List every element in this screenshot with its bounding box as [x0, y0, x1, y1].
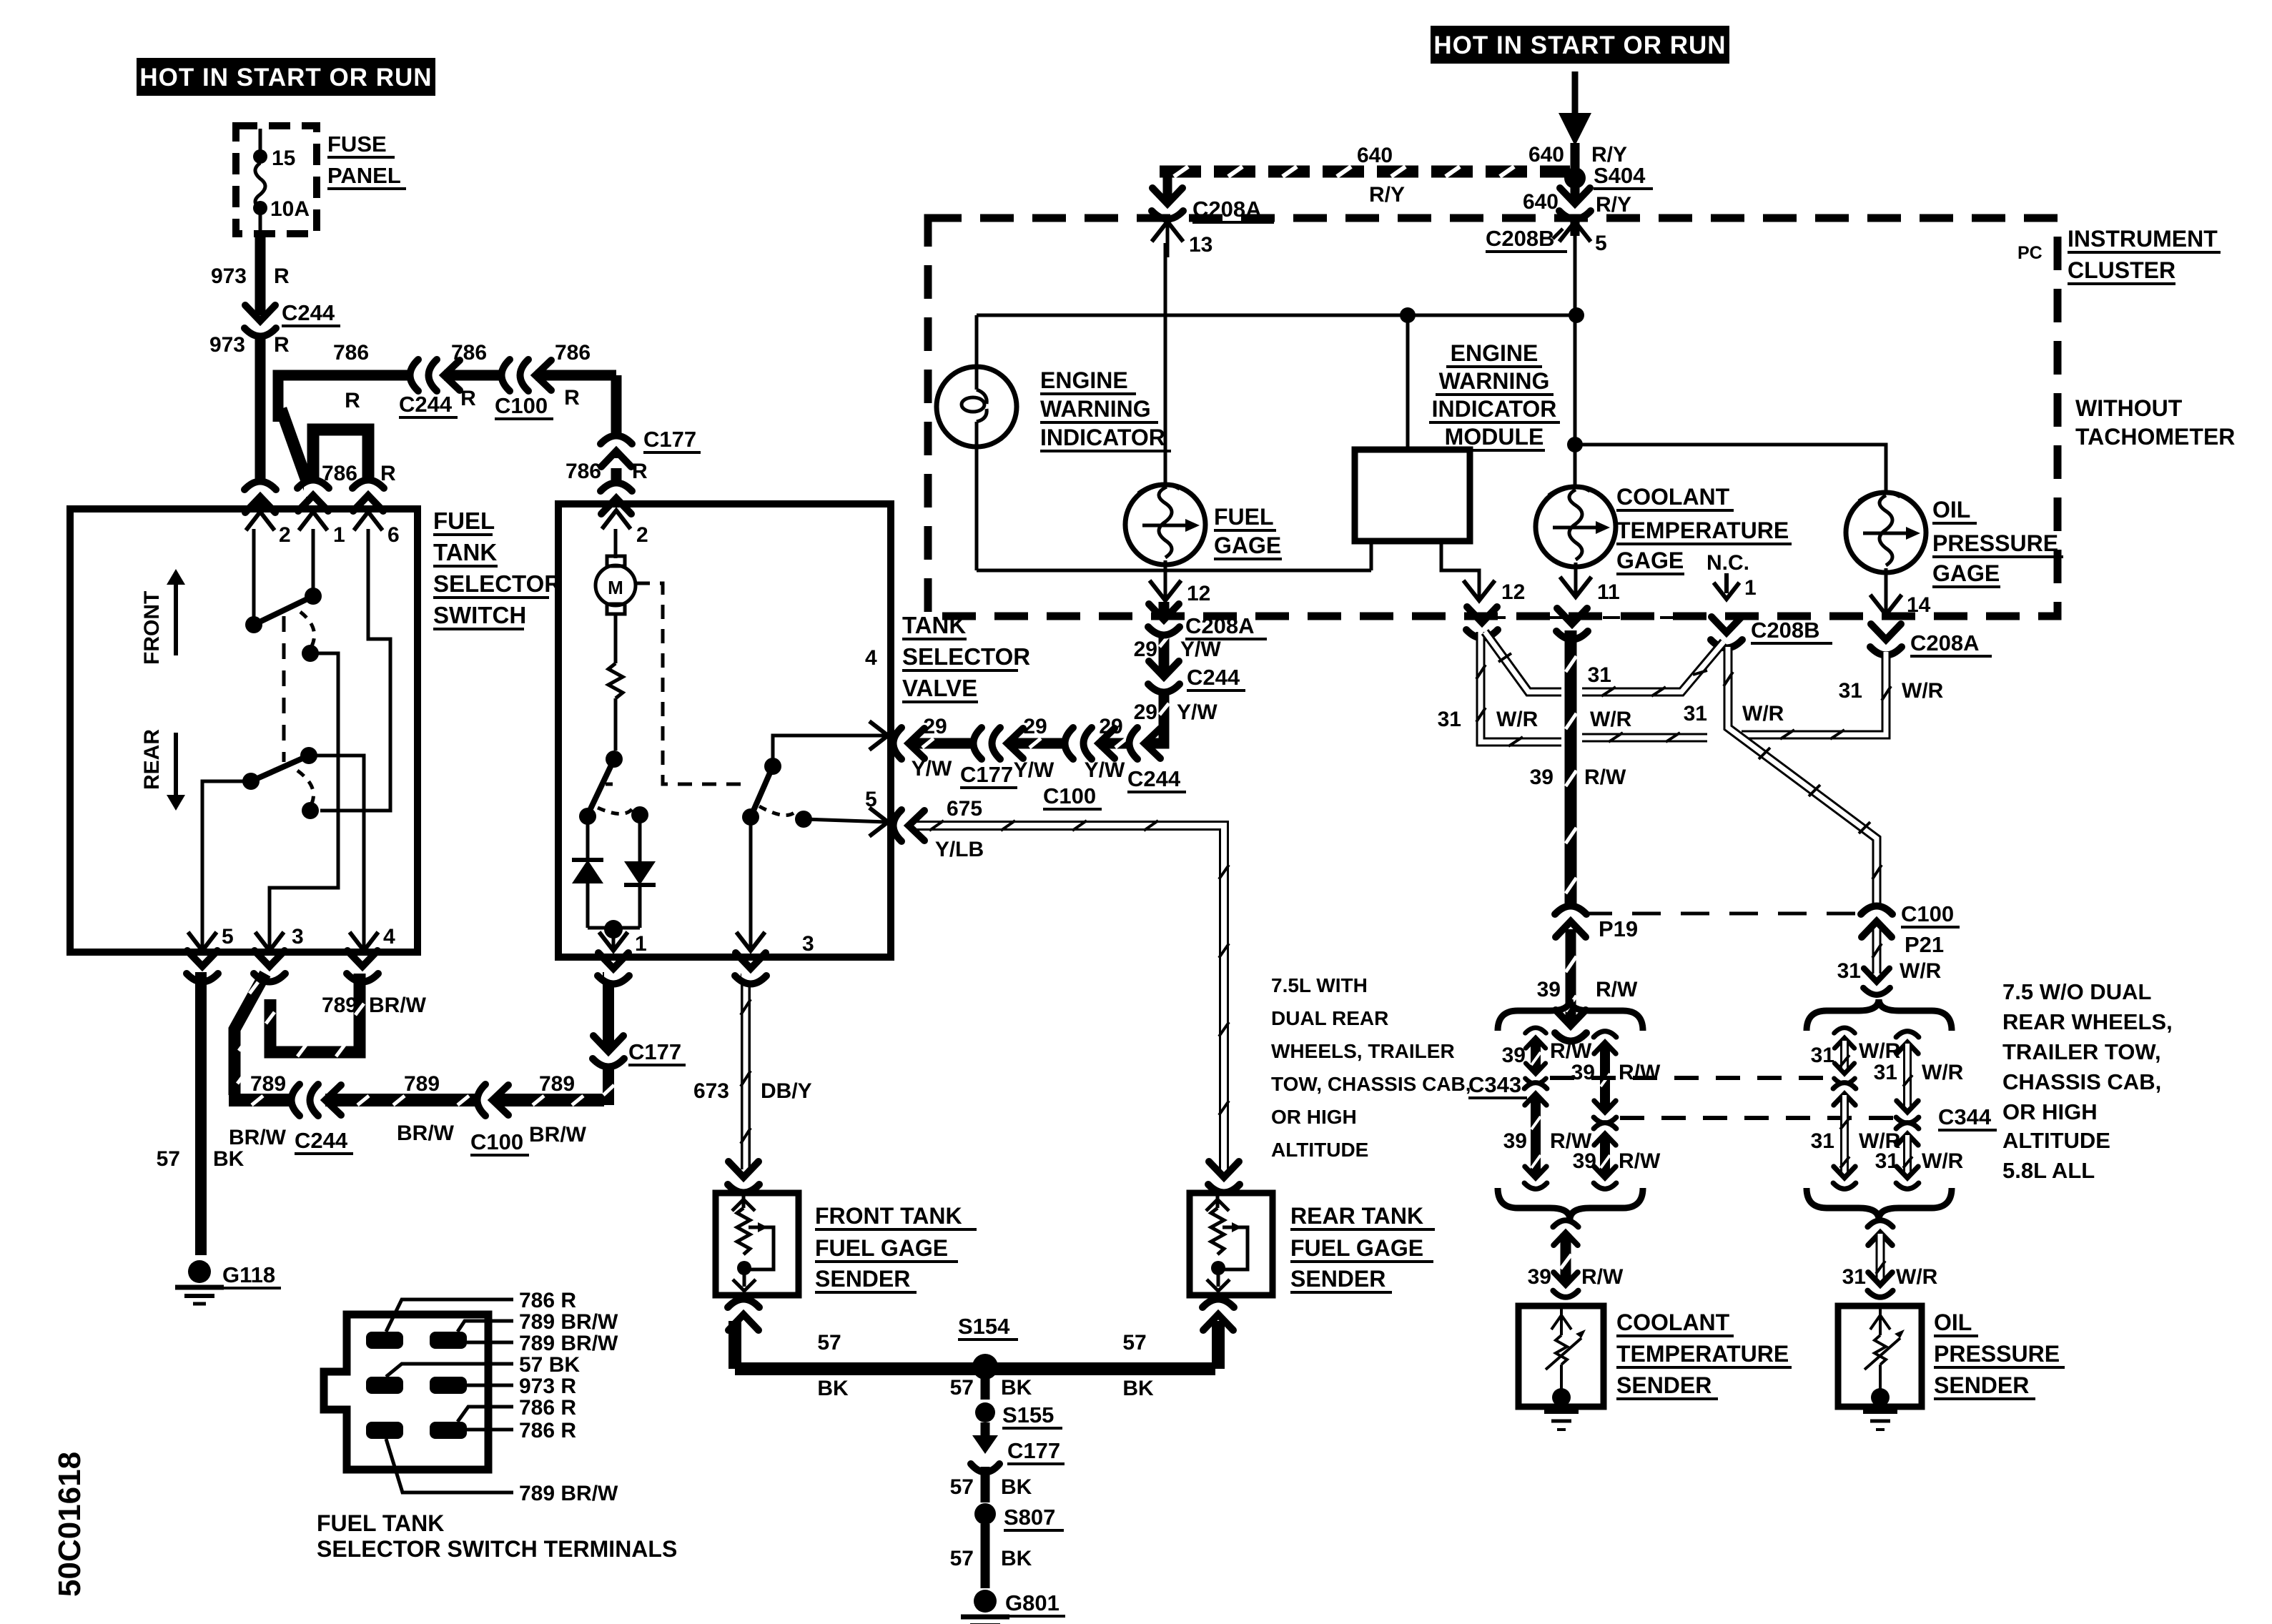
- wire 57 BK C177 to S807: [950, 1467, 1032, 1502]
- svg-text:973: 973: [211, 264, 247, 288]
- ground G118: [175, 1260, 281, 1304]
- svg-text:VALVE: VALVE: [902, 675, 977, 701]
- wire 789 BR/W riser to valve pin 1: [603, 972, 614, 1105]
- svg-text:31: 31: [1874, 1061, 1897, 1084]
- svg-text:INDICATOR: INDICATOR: [1432, 396, 1557, 422]
- note 7.5L with dual rear wheels: [1271, 974, 1471, 1161]
- svg-text:GAGE: GAGE: [1932, 560, 2000, 586]
- svg-text:57: 57: [950, 1475, 974, 1499]
- wire 39 R/W coolant pin11 main drop: [1530, 630, 1626, 904]
- wire 57 BK sender rail: [735, 1321, 1218, 1400]
- cluster pin 5 arrow: [1559, 222, 1607, 257]
- svg-text:BK: BK: [1001, 1475, 1032, 1499]
- svg-text:31: 31: [1837, 959, 1861, 983]
- svg-text:PRESSURE: PRESSURE: [1934, 1341, 2060, 1367]
- svg-text:FUEL: FUEL: [1214, 504, 1274, 530]
- svg-text:DB/Y: DB/Y: [761, 1079, 812, 1103]
- svg-text:31: 31: [1811, 1129, 1834, 1153]
- svg-text:BK: BK: [1001, 1547, 1032, 1570]
- svg-text:WARNING: WARNING: [1439, 368, 1550, 394]
- svg-text:TEMPERATURE: TEMPERATURE: [1616, 1341, 1789, 1367]
- wire 31 W/R lower (left leg): [1811, 1082, 1901, 1189]
- valve node to pin 1: [588, 920, 647, 956]
- svg-text:ALTITUDE: ALTITUDE: [2002, 1128, 2110, 1153]
- switch upper pole wiring: [245, 529, 338, 948]
- splice S404: [1523, 163, 1653, 217]
- svg-text:OR HIGH: OR HIGH: [2002, 1099, 2098, 1124]
- terminal leader lines: [386, 1299, 513, 1492]
- svg-text:SWITCH: SWITCH: [433, 602, 526, 628]
- svg-text:R: R: [274, 264, 290, 288]
- svg-text:Y/W: Y/W: [1177, 700, 1218, 724]
- svg-text:789 BR/W: 789 BR/W: [519, 1332, 618, 1355]
- dashed C100 boundary line: [1584, 912, 1864, 916]
- svg-text:W/R: W/R: [1859, 1039, 1901, 1063]
- engine warning indicator bulb: [937, 315, 1017, 570]
- svg-text:TACHOMETER: TACHOMETER: [2075, 424, 2235, 450]
- switch coupling dashed link: [282, 616, 286, 762]
- wire 31 W/R module pin12 loop (left): [1476, 632, 1561, 746]
- svg-text:57: 57: [950, 1547, 974, 1570]
- svg-text:P21: P21: [1905, 932, 1944, 957]
- svg-text:31: 31: [1438, 708, 1461, 731]
- svg-text:C208B: C208B: [1751, 618, 1820, 643]
- svg-text:675: 675: [947, 797, 982, 821]
- connector C177 (57 BK wire): [971, 1422, 1065, 1472]
- svg-text:W/R: W/R: [1896, 1265, 1938, 1289]
- terminal pins: [366, 1332, 467, 1439]
- svg-text:R/W: R/W: [1550, 1039, 1592, 1063]
- svg-text:W/R: W/R: [1900, 959, 1942, 983]
- wire 39 R/W to coolant sender: [1528, 1220, 1624, 1297]
- svg-text:R: R: [632, 460, 648, 483]
- svg-text:DUAL REAR: DUAL REAR: [1271, 1007, 1388, 1029]
- valve right pole contacts: [736, 736, 887, 956]
- svg-text:C100: C100: [1043, 783, 1096, 808]
- svg-text:TEMPERATURE: TEMPERATURE: [1616, 518, 1789, 543]
- connector chevron (coolant pin 11): [1556, 608, 1588, 640]
- switch pin 1 entry: [297, 480, 345, 547]
- svg-text:OIL: OIL: [1932, 497, 1970, 523]
- dashed jumper line upper: [1550, 1076, 1830, 1080]
- svg-text:BR/W: BR/W: [229, 1126, 287, 1149]
- svg-text:COOLANT: COOLANT: [1616, 1309, 1730, 1335]
- svg-text:C244: C244: [399, 392, 453, 417]
- svg-text:31: 31: [1875, 1149, 1899, 1173]
- wire 640 R/Y vertical at S404: [1528, 71, 1627, 236]
- svg-text:57: 57: [1122, 1331, 1146, 1355]
- svg-text:973 R: 973 R: [519, 1375, 576, 1398]
- cluster pin 12 arrow (module): [1463, 580, 1525, 604]
- svg-text:W/R: W/R: [1922, 1061, 1964, 1084]
- svg-text:PC: PC: [2017, 243, 2043, 263]
- svg-text:FUEL GAGE: FUEL GAGE: [815, 1235, 948, 1261]
- svg-text:786: 786: [555, 341, 591, 365]
- connector C177 (789 wire): [593, 1036, 686, 1067]
- svg-text:W/R: W/R: [1922, 1149, 1964, 1173]
- svg-text:7.5 W/O DUAL: 7.5 W/O DUAL: [2002, 979, 2151, 1004]
- svg-text:R: R: [274, 333, 290, 357]
- svg-text:TRAILER TOW,: TRAILER TOW,: [2002, 1039, 2161, 1064]
- FRONT arrow: [140, 569, 185, 665]
- wire 57 BK S154 to S155: [950, 1376, 1032, 1400]
- svg-text:COOLANT: COOLANT: [1616, 484, 1730, 510]
- svg-text:786 R: 786 R: [519, 1396, 576, 1420]
- wire 640 R/Y horizontal run: [1160, 144, 1570, 207]
- svg-text:S404: S404: [1594, 163, 1646, 188]
- svg-text:N.C.: N.C.: [1707, 551, 1749, 575]
- svg-text:C344: C344: [1938, 1104, 1992, 1129]
- brace upper (39 group): [1498, 999, 1643, 1031]
- svg-text:GAGE: GAGE: [1214, 533, 1281, 558]
- svg-text:5.8L ALL: 5.8L ALL: [2002, 1158, 2095, 1183]
- svg-text:786 R: 786 R: [519, 1419, 576, 1442]
- splice S154: [958, 1314, 1018, 1380]
- svg-text:INDICATOR: INDICATOR: [1040, 425, 1165, 450]
- svg-text:786: 786: [565, 460, 601, 483]
- valve diode D1: [572, 816, 603, 928]
- svg-text:39: 39: [1503, 1129, 1527, 1153]
- svg-text:REAR: REAR: [140, 729, 164, 790]
- note 7.5 w/o dual rear wheels: [2002, 979, 2173, 1183]
- svg-text:13: 13: [1189, 233, 1212, 257]
- brace lower (39 group): [1498, 1188, 1643, 1219]
- svg-text:C208A: C208A: [1910, 630, 1980, 655]
- svg-text:29: 29: [1134, 638, 1157, 661]
- svg-text:R/W: R/W: [1584, 766, 1626, 789]
- svg-text:39: 39: [1571, 1061, 1595, 1084]
- svg-text:C244: C244: [1187, 665, 1240, 690]
- svg-text:WITHOUT: WITHOUT: [2075, 395, 2183, 421]
- valve left pole contacts: [579, 751, 648, 825]
- wire 39 R/W lower (left leg): [1503, 1082, 1592, 1189]
- wire 973 R C244 to switch pin 2: [255, 335, 266, 506]
- svg-text:FRONT: FRONT: [140, 591, 164, 665]
- svg-text:2: 2: [636, 523, 648, 547]
- valve pin 4 arrow: [865, 646, 888, 750]
- svg-text:57: 57: [950, 1376, 974, 1400]
- svg-text:CHASSIS CAB,: CHASSIS CAB,: [2002, 1069, 2161, 1094]
- svg-text:673: 673: [693, 1079, 729, 1103]
- svg-text:FUEL TANK: FUEL TANK: [317, 1510, 444, 1536]
- svg-text:P19: P19: [1599, 916, 1638, 941]
- svg-text:OIL: OIL: [1934, 1309, 1972, 1335]
- svg-text:640: 640: [1528, 143, 1564, 167]
- svg-text:C208B: C208B: [1486, 226, 1555, 251]
- fuel gage: [1125, 243, 1205, 597]
- svg-text:39: 39: [1530, 766, 1554, 789]
- REAR arrow: [140, 729, 185, 811]
- svg-text:BR/W: BR/W: [369, 994, 427, 1017]
- svg-text:FRONT TANK: FRONT TANK: [815, 1203, 962, 1229]
- cluster internal top rail: [977, 307, 1584, 323]
- svg-text:R/Y: R/Y: [1596, 193, 1631, 217]
- svg-text:57: 57: [157, 1147, 180, 1171]
- svg-text:HOT IN START OR RUN: HOT IN START OR RUN: [139, 64, 432, 91]
- connector C100 (786 run): [495, 360, 553, 419]
- svg-text:C177: C177: [643, 427, 696, 452]
- switch lower pole wiring: [202, 747, 364, 948]
- wire 789 BR/W horizontal run: [229, 1072, 604, 1149]
- svg-text:REAR TANK: REAR TANK: [1290, 1203, 1423, 1229]
- svg-text:C177: C177: [960, 762, 1013, 787]
- svg-text:SELECTOR SWITCH TERMINALS: SELECTOR SWITCH TERMINALS: [317, 1536, 677, 1562]
- svg-text:C177: C177: [628, 1039, 681, 1064]
- svg-text:FUSE: FUSE: [327, 132, 387, 157]
- switch pin 6 internal wire: [320, 529, 390, 811]
- switch pin 2 entry: [245, 481, 291, 547]
- terminal labels: [519, 1289, 618, 1505]
- connector chevron (module pin 12): [1466, 607, 1498, 638]
- wire 675 Y/LB valve pin5 to rear sender: [893, 797, 1229, 1169]
- wire 31 W/R N.C. drop diagonal to C100: [1724, 647, 1882, 909]
- front tank fuel gage sender: [716, 1162, 799, 1330]
- svg-text:R/W: R/W: [1581, 1265, 1624, 1289]
- splice S807: [974, 1503, 1064, 1530]
- svg-text:BR/W: BR/W: [397, 1122, 455, 1145]
- splice P19: [1555, 906, 1638, 941]
- connector C343: [1468, 1072, 1527, 1098]
- svg-text:12: 12: [1187, 582, 1210, 605]
- wire 973 R fuse to C244: [255, 234, 266, 315]
- wire 31 W/R below P21: [1837, 929, 1942, 995]
- wire 31 W/R right leg: [1874, 1031, 1964, 1189]
- wire 31 W/R oil pin14 drop: [1742, 652, 1891, 739]
- svg-text:SENDER: SENDER: [815, 1266, 910, 1292]
- svg-text:TOW, CHASSIS CAB,: TOW, CHASSIS CAB,: [1271, 1073, 1471, 1095]
- svg-text:973: 973: [209, 333, 245, 357]
- svg-text:786: 786: [333, 341, 369, 365]
- svg-text:12: 12: [1501, 580, 1525, 604]
- brace upper (31 group): [1807, 999, 1952, 1031]
- svg-text:BR/W: BR/W: [529, 1123, 587, 1147]
- tank selector valve box: [558, 504, 891, 957]
- svg-text:1: 1: [333, 523, 345, 547]
- svg-text:C244: C244: [295, 1128, 348, 1153]
- cluster pin 14 arrow: [1870, 593, 1931, 617]
- N.C. pin 1 arrow: [1707, 551, 1757, 600]
- wire 57 BK switch pin 5 to G118: [195, 972, 207, 1255]
- svg-text:C177: C177: [1007, 1438, 1060, 1463]
- wire 789 BR/W switch pin4 loop: [266, 974, 427, 1056]
- svg-text:REAR WHEELS,: REAR WHEELS,: [2002, 1009, 2173, 1034]
- svg-text:50C01618: 50C01618: [52, 1452, 87, 1597]
- wire 31 W/R upper short (left leg): [1811, 1027, 1901, 1084]
- svg-text:W/R: W/R: [1496, 708, 1538, 731]
- svg-text:786 R: 786 R: [519, 1289, 576, 1312]
- svg-text:11: 11: [1597, 580, 1620, 604]
- svg-text:Y/LB: Y/LB: [935, 838, 984, 861]
- valve pin 5 arrow: [865, 788, 888, 836]
- cluster pin 11 arrow: [1560, 577, 1620, 604]
- hot in start or run label (right): [1431, 26, 1729, 64]
- connector C208B chevron (N.C. pin 1): [1711, 617, 1832, 648]
- svg-text:G118: G118: [222, 1262, 275, 1287]
- svg-text:C244: C244: [1127, 766, 1181, 791]
- svg-text:ENGINE: ENGINE: [1451, 340, 1538, 366]
- svg-text:G801: G801: [1005, 1590, 1060, 1615]
- svg-text:ENGINE: ENGINE: [1040, 367, 1128, 393]
- wire 786 R hat loop pins 1-6: [313, 430, 368, 500]
- connector C177 (786 wire): [601, 427, 701, 467]
- svg-text:57: 57: [817, 1331, 841, 1355]
- svg-text:39: 39: [1502, 1044, 1526, 1067]
- fuse F (15, 10A): [253, 129, 310, 236]
- fuel tank selector switch terminals body: [324, 1314, 488, 1470]
- svg-text:Y/W: Y/W: [1014, 758, 1054, 782]
- svg-text:5: 5: [865, 788, 877, 811]
- svg-text:29: 29: [1023, 715, 1047, 738]
- cluster internal bottom rail: [977, 569, 1371, 573]
- svg-text:FUEL: FUEL: [433, 508, 495, 534]
- svg-text:R: R: [380, 462, 396, 485]
- svg-text:HOT IN START OR RUN: HOT IN START OR RUN: [1433, 31, 1726, 59]
- svg-text:1: 1: [635, 932, 647, 956]
- engine warning indicator module: [1355, 315, 1479, 597]
- svg-text:W/R: W/R: [1902, 679, 1944, 703]
- svg-text:Y/W: Y/W: [1085, 758, 1125, 782]
- svg-text:39: 39: [1537, 978, 1561, 1001]
- svg-text:29: 29: [1134, 700, 1157, 724]
- svg-text:2: 2: [279, 523, 291, 547]
- svg-text:31: 31: [1588, 663, 1611, 687]
- connector C100 (789 run): [470, 1084, 529, 1155]
- rear tank fuel gage sender: [1190, 1162, 1273, 1330]
- svg-text:10A: 10A: [270, 197, 310, 221]
- svg-text:W/R: W/R: [1742, 702, 1784, 726]
- svg-text:789: 789: [539, 1072, 575, 1096]
- splice S155: [975, 1402, 1062, 1428]
- switch pin 4 exit: [347, 925, 395, 982]
- switch pin 5 exit: [187, 925, 234, 982]
- connector C208A (lamp wire): [1152, 188, 1274, 222]
- svg-text:TANK: TANK: [433, 539, 497, 565]
- svg-text:SENDER: SENDER: [1934, 1372, 2029, 1398]
- svg-text:R/W: R/W: [1619, 1061, 1661, 1084]
- switch pin 3 exit: [254, 925, 304, 982]
- valve pin1/pin3 bottom chevrons: [598, 953, 629, 984]
- valve diode D2: [624, 815, 656, 928]
- svg-text:FUEL GAGE: FUEL GAGE: [1290, 1235, 1423, 1261]
- svg-text:31: 31: [1684, 702, 1707, 726]
- svg-text:29: 29: [1099, 715, 1122, 738]
- svg-text:4: 4: [865, 646, 877, 670]
- svg-text:640: 640: [1523, 190, 1559, 214]
- coolant temperature sender: [1518, 1306, 1604, 1430]
- svg-text:57 BK: 57 BK: [519, 1353, 580, 1377]
- svg-text:C208A: C208A: [1185, 613, 1255, 638]
- connector C344: [1938, 1104, 1997, 1130]
- svg-text:SELECTOR: SELECTOR: [433, 570, 561, 597]
- svg-text:15: 15: [272, 147, 295, 170]
- svg-text:789: 789: [404, 1072, 440, 1096]
- cluster pin 13 arrow: [1152, 222, 1212, 257]
- svg-text:CLUSTER: CLUSTER: [2068, 257, 2175, 283]
- hot in start or run label (left): [137, 58, 435, 96]
- dashed jumper line lower: [1620, 1116, 1895, 1120]
- wire 31 W/R to N.C. pin: [1582, 642, 1724, 696]
- ground G801: [961, 1590, 1065, 1624]
- fuel tank selector switch box: [70, 509, 418, 952]
- svg-text:789 BR/W: 789 BR/W: [519, 1310, 618, 1334]
- cluster pin 12 arrow (fuel gage): [1150, 580, 1210, 605]
- svg-text:R/W: R/W: [1596, 978, 1638, 1001]
- svg-text:6: 6: [387, 523, 400, 547]
- svg-text:R/Y: R/Y: [1369, 183, 1405, 207]
- svg-text:PRESSURE: PRESSURE: [1932, 530, 2058, 556]
- wire 39 R/W right leg: [1571, 1031, 1661, 1189]
- connector C244 (973 wire): [245, 300, 340, 337]
- wire 39 R/W upper short (left leg): [1502, 1027, 1592, 1084]
- svg-text:BK: BK: [817, 1377, 849, 1400]
- svg-text:5: 5: [1595, 232, 1607, 255]
- svg-text:W/R: W/R: [1590, 708, 1632, 731]
- connector C208B (S404 wire): [1486, 188, 1591, 252]
- svg-text:R/W: R/W: [1619, 1149, 1661, 1173]
- svg-text:MODULE: MODULE: [1445, 424, 1544, 450]
- svg-text:M: M: [608, 577, 623, 598]
- svg-text:789 BR/W: 789 BR/W: [519, 1482, 618, 1505]
- svg-text:WHEELS, TRAILER: WHEELS, TRAILER: [1271, 1040, 1455, 1062]
- svg-text:SELECTOR: SELECTOR: [902, 643, 1030, 670]
- coolant temperature gage: [1536, 243, 1616, 593]
- svg-text:39: 39: [1528, 1265, 1551, 1289]
- connector C100 / P21: [1861, 901, 1960, 957]
- wire 29 Y/W valve pin4 to cluster pin 12: [893, 602, 1180, 759]
- svg-text:14: 14: [1907, 593, 1931, 617]
- wire 57 BK S807 to G801: [950, 1524, 1032, 1588]
- svg-text:39: 39: [1573, 1149, 1596, 1173]
- wire 786 R horizontal run: [278, 341, 616, 497]
- svg-text:640: 640: [1357, 144, 1393, 167]
- svg-text:C100: C100: [470, 1129, 523, 1154]
- svg-text:BK: BK: [1122, 1377, 1154, 1400]
- connector C244 (789 run): [291, 1084, 353, 1154]
- wire 31 W/R module pin12 diagonal: [1485, 632, 1561, 692]
- connector C244 (786 run): [399, 360, 460, 417]
- svg-text:3: 3: [802, 932, 814, 956]
- switch pin 6 entry: [352, 480, 400, 547]
- wire 39 R/W P19 to bracket: [1537, 929, 1638, 1041]
- svg-text:S154: S154: [958, 1314, 1010, 1339]
- svg-text:BK: BK: [213, 1147, 245, 1171]
- wire 31 W/R lower rail to diagonal: [1582, 733, 1707, 742]
- svg-text:7.5L WITH: 7.5L WITH: [1271, 974, 1368, 996]
- svg-text:29: 29: [923, 715, 947, 738]
- svg-text:C100: C100: [495, 393, 548, 418]
- svg-text:SENDER: SENDER: [1290, 1266, 1386, 1292]
- fuse panel box: [236, 126, 406, 234]
- svg-text:C343: C343: [1468, 1072, 1521, 1097]
- svg-text:5: 5: [222, 925, 234, 949]
- motor M: [596, 529, 636, 614]
- svg-text:PANEL: PANEL: [327, 163, 401, 188]
- svg-text:BK: BK: [1001, 1376, 1032, 1400]
- svg-text:4: 4: [383, 925, 395, 949]
- brace lower (31 group): [1807, 1188, 1952, 1219]
- svg-text:31: 31: [1811, 1044, 1834, 1067]
- svg-text:3: 3: [292, 925, 304, 949]
- svg-text:GAGE: GAGE: [1616, 548, 1684, 573]
- svg-text:R: R: [564, 386, 580, 410]
- svg-text:S155: S155: [1002, 1402, 1054, 1427]
- instrument cluster dashed border: [928, 218, 2058, 616]
- oil pressure gage: [1575, 445, 1926, 611]
- svg-text:ALTITUDE: ALTITUDE: [1271, 1139, 1368, 1161]
- svg-text:Y/W: Y/W: [1180, 638, 1221, 661]
- svg-text:789: 789: [250, 1072, 286, 1096]
- svg-text:31: 31: [1839, 679, 1862, 703]
